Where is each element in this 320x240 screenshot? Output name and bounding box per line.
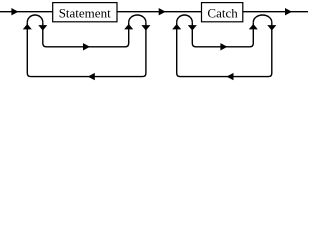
svg-text:Catch: Catch xyxy=(207,5,238,20)
svg-text:Statement: Statement xyxy=(59,5,111,20)
